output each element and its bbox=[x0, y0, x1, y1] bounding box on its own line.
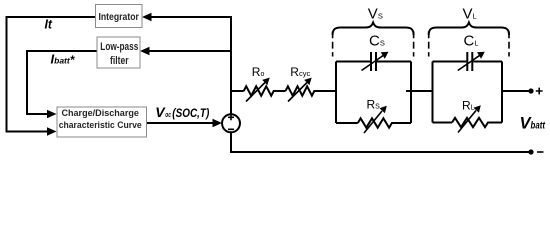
svg-text:(SOC,T): (SOC,T) bbox=[172, 106, 209, 120]
svg-text:Charge/Discharge: Charge/Discharge bbox=[61, 108, 139, 119]
svg-text:filter: filter bbox=[110, 55, 129, 67]
svg-text:characteristic Curve: characteristic Curve bbox=[59, 120, 142, 131]
svg-text:Low-pass: Low-pass bbox=[100, 41, 138, 53]
svg-text:It: It bbox=[45, 18, 53, 32]
svg-text:oc: oc bbox=[165, 110, 171, 119]
svg-text:batt: batt bbox=[531, 120, 546, 131]
svg-text:Integrator: Integrator bbox=[98, 11, 139, 23]
